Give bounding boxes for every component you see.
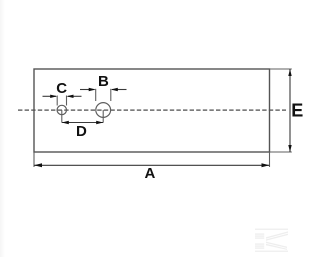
kramp watermark logo bbox=[255, 229, 288, 252]
dimension B arrows bbox=[80, 89, 95, 91]
dimension C extension lines bbox=[56, 96, 58, 106]
dimension E extension lines bbox=[270, 68, 292, 70]
hole B (large circle) bbox=[96, 103, 111, 118]
dashed centerline bbox=[18, 109, 286, 111]
svg-text:E: E bbox=[291, 101, 303, 121]
dimension A extension lines bbox=[33, 152, 35, 167]
svg-text:D: D bbox=[76, 123, 87, 140]
svg-text:A: A bbox=[145, 165, 156, 182]
dimension C arrows bbox=[43, 95, 57, 97]
hole C (small circle) bbox=[57, 105, 66, 114]
wire: center mark small hole bbox=[61, 110, 63, 123]
dimension D line with arrows bbox=[62, 122, 103, 124]
svg-text:C: C bbox=[56, 80, 67, 97]
dimension B extension lines bbox=[95, 89, 97, 101]
dimension A line with arrows bbox=[34, 164, 270, 166]
wire: center mark large hole bbox=[102, 110, 104, 123]
svg-text:B: B bbox=[98, 73, 109, 90]
dimension E line with arrows bbox=[289, 69, 291, 152]
plate outline rectangle bbox=[34, 69, 270, 152]
